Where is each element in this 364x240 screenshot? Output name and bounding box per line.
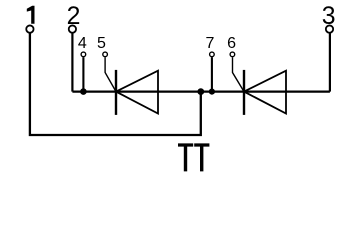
gate wire terminal 5 to thyristor V1 gate (105, 57, 116, 91)
thyristor V1 cathode bar (115, 70, 117, 115)
wire main rail (72, 90, 330, 92)
thyristor V1 triangle (116, 71, 158, 114)
terminal 1 (26, 25, 33, 32)
gate wire terminal 6 to thyristor V2 gate (233, 57, 245, 91)
terminal 3 (326, 25, 333, 32)
wire terminal 1 down, bottom loop to node A (30, 33, 201, 135)
terminal 5 (103, 52, 108, 57)
terminal 6 (230, 52, 235, 57)
node A junction dot (bottom loop / main rail) (197, 88, 204, 95)
svg-text:7: 7 (205, 35, 214, 52)
wire terminal 3 down to main rail (329, 33, 331, 91)
wire terminal 7 down to main rail (211, 57, 213, 91)
svg-text:6: 6 (227, 35, 236, 52)
junction dot terminal 7 / main rail (209, 89, 215, 95)
wire terminal 4 down to main rail (82, 57, 84, 91)
svg-text:4: 4 (78, 35, 87, 52)
svg-text:5: 5 (97, 35, 106, 52)
junction dot terminal 4 / main rail (80, 88, 87, 95)
thyristor V2 cathode bar (243, 70, 245, 115)
wire terminal 2 down to main rail (71, 33, 73, 91)
terminal 2 (69, 25, 76, 32)
thyristor V2 triangle (244, 71, 286, 114)
module type label TT (178, 143, 209, 171)
pin label 1 (27, 6, 35, 24)
terminal 7 (210, 52, 215, 57)
terminal 4 (81, 52, 86, 57)
